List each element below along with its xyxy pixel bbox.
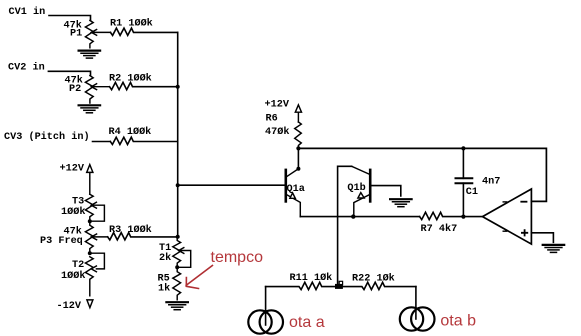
junction dot bus R3/T1 <box>176 235 180 239</box>
potentiometer P1 wiper arrow <box>91 30 110 36</box>
transistor Q1a base bar <box>284 170 287 202</box>
svg-text:P3 Freq: P3 Freq <box>40 236 83 247</box>
junction dot bus-base <box>176 183 180 187</box>
svg-text:1ØØk: 1ØØk <box>61 270 85 282</box>
potentiometer P1 47k body <box>85 20 93 47</box>
wire emitters to op-amp <box>300 216 419 218</box>
svg-text:CV2 in: CV2 in <box>8 62 45 74</box>
wire op-amp plus to ground <box>531 233 553 243</box>
wire Q1a collector vertical <box>297 148 299 168</box>
svg-text:2k: 2k <box>159 252 171 264</box>
capacitor C1 plates <box>456 177 473 179</box>
op-amp input stub nubs on edges <box>503 201 506 203</box>
junction dot Q1b emitter <box>351 214 355 218</box>
potentiometer P3 47k body <box>85 221 93 253</box>
junction dot Q1a collector <box>296 167 300 171</box>
transistor Q1b base bar <box>369 170 372 202</box>
trimmer T2 wiper loop and arrow <box>90 253 105 272</box>
resistor R3 100k <box>108 233 178 240</box>
ground Q1b base <box>390 199 412 207</box>
svg-text:ota b: ota b <box>440 313 476 330</box>
ota a symbol circles <box>248 310 271 333</box>
ground under P1 <box>79 51 101 59</box>
capacitor C1 leads <box>462 148 464 178</box>
transistor Q1b emitter diagonal <box>354 195 370 217</box>
svg-text:1ØØk: 1ØØk <box>61 206 85 218</box>
svg-text:+12V: +12V <box>60 164 85 175</box>
svg-text:1k: 1k <box>158 282 170 294</box>
op-amp minus sign <box>521 201 526 203</box>
wire top long (to op-amp feedback corner) <box>298 148 546 201</box>
transistor Q1a emitter diagonal <box>287 195 300 217</box>
svg-text:4n7: 4n7 <box>482 176 500 187</box>
trimmer T2 body <box>85 257 93 296</box>
junction dot C1 top <box>461 146 465 150</box>
svg-text:+12V: +12V <box>265 99 290 110</box>
junction dot bus-R2 <box>176 85 180 89</box>
potentiometer P2 47k body <box>85 76 93 103</box>
svg-text:R7 4k7: R7 4k7 <box>421 223 458 235</box>
svg-text:ota a: ota a <box>289 314 325 331</box>
wire base Q1a from bus <box>178 184 285 186</box>
trimmer T3 body <box>85 194 93 221</box>
junction dot T1 bottom <box>175 265 179 269</box>
svg-text:R2 1ØØk: R2 1ØØk <box>109 72 152 84</box>
svg-text:R4 1ØØk: R4 1ØØk <box>109 126 152 138</box>
svg-text:R3 1ØØk: R3 1ØØk <box>109 224 152 236</box>
svg-text:R6: R6 <box>266 114 278 125</box>
trimmer T3 wiper arrow and loop <box>90 202 105 221</box>
ground under R5 <box>166 302 188 310</box>
resistor R7 4k7 <box>420 212 483 219</box>
transistor Q1b collector diagonal <box>352 166 370 174</box>
junction dot T3 bottom <box>88 219 92 223</box>
svg-text:CV3 (Pitch in): CV3 (Pitch in) <box>4 131 90 143</box>
svg-text:CV1 in: CV1 in <box>9 6 46 18</box>
wire summing bus vertical <box>177 32 179 236</box>
junction dot OTA node <box>335 284 343 289</box>
resistor R1 100k <box>111 28 178 35</box>
svg-text:R22 1Øk: R22 1Øk <box>352 272 395 284</box>
resistor R11 10k <box>266 282 338 289</box>
transistor Q1b emitter arrow <box>358 193 364 198</box>
resistor R22 10k <box>338 282 416 289</box>
resistor R2 100k <box>110 82 178 89</box>
ground op-amp plus <box>543 245 565 253</box>
op-amp plus sign <box>522 230 527 235</box>
potentiometer P3 wiper arrow <box>91 234 107 240</box>
wire down to ota a <box>265 287 267 325</box>
svg-text:-12V: -12V <box>57 301 82 312</box>
power -12V arrow <box>87 300 93 308</box>
svg-text:tempco: tempco <box>211 249 264 266</box>
op-amp U1 triangle <box>483 189 532 244</box>
ota b symbol circles <box>400 307 423 330</box>
wire Q1b base to ground <box>372 186 401 196</box>
junction dot C1 bottom <box>461 215 465 219</box>
svg-text:R11 1Øk: R11 1Øk <box>290 272 333 284</box>
junction dot P3 bottom / T2 wiper <box>88 251 92 255</box>
power +12V R6 arrow <box>295 105 301 122</box>
resistor R5 1k vertical <box>173 267 181 300</box>
trimmer T1 body <box>173 237 181 268</box>
wire CV3 to R4 <box>93 141 111 143</box>
svg-text:Q1a: Q1a <box>287 184 305 195</box>
svg-text:R1 1ØØk: R1 1ØØk <box>110 17 153 29</box>
transistor Q1a collector diagonal <box>287 169 298 177</box>
svg-text:47Øk: 47Øk <box>265 126 289 138</box>
label Q1b <box>347 181 367 194</box>
junction dot R6 bottom node <box>296 146 300 150</box>
svg-text:P2: P2 <box>69 84 81 95</box>
transistor Q1a emitter arrow <box>290 193 295 198</box>
ground under P2 <box>79 105 101 113</box>
svg-text:Q1b: Q1b <box>347 182 365 194</box>
power +12V left arrow <box>87 165 93 195</box>
resistor R6 470k vertical <box>295 122 302 148</box>
potentiometer P2 wiper arrow <box>91 84 109 90</box>
wire CV2 to P2 top <box>48 71 90 75</box>
svg-text:P1: P1 <box>70 29 82 40</box>
trimmer T1 wiper arrow and loop <box>177 248 191 268</box>
svg-text:C1: C1 <box>466 187 478 198</box>
wire CV1 to P1 top <box>49 16 91 21</box>
annotation red arrow to R5 <box>186 266 212 289</box>
resistor R4 100k <box>110 137 177 144</box>
wire down to ota b <box>415 287 417 319</box>
transistor Q1b collector wire down to OTA node <box>338 166 352 286</box>
svg-text:T3: T3 <box>72 196 84 207</box>
svg-text:T2: T2 <box>72 260 84 271</box>
